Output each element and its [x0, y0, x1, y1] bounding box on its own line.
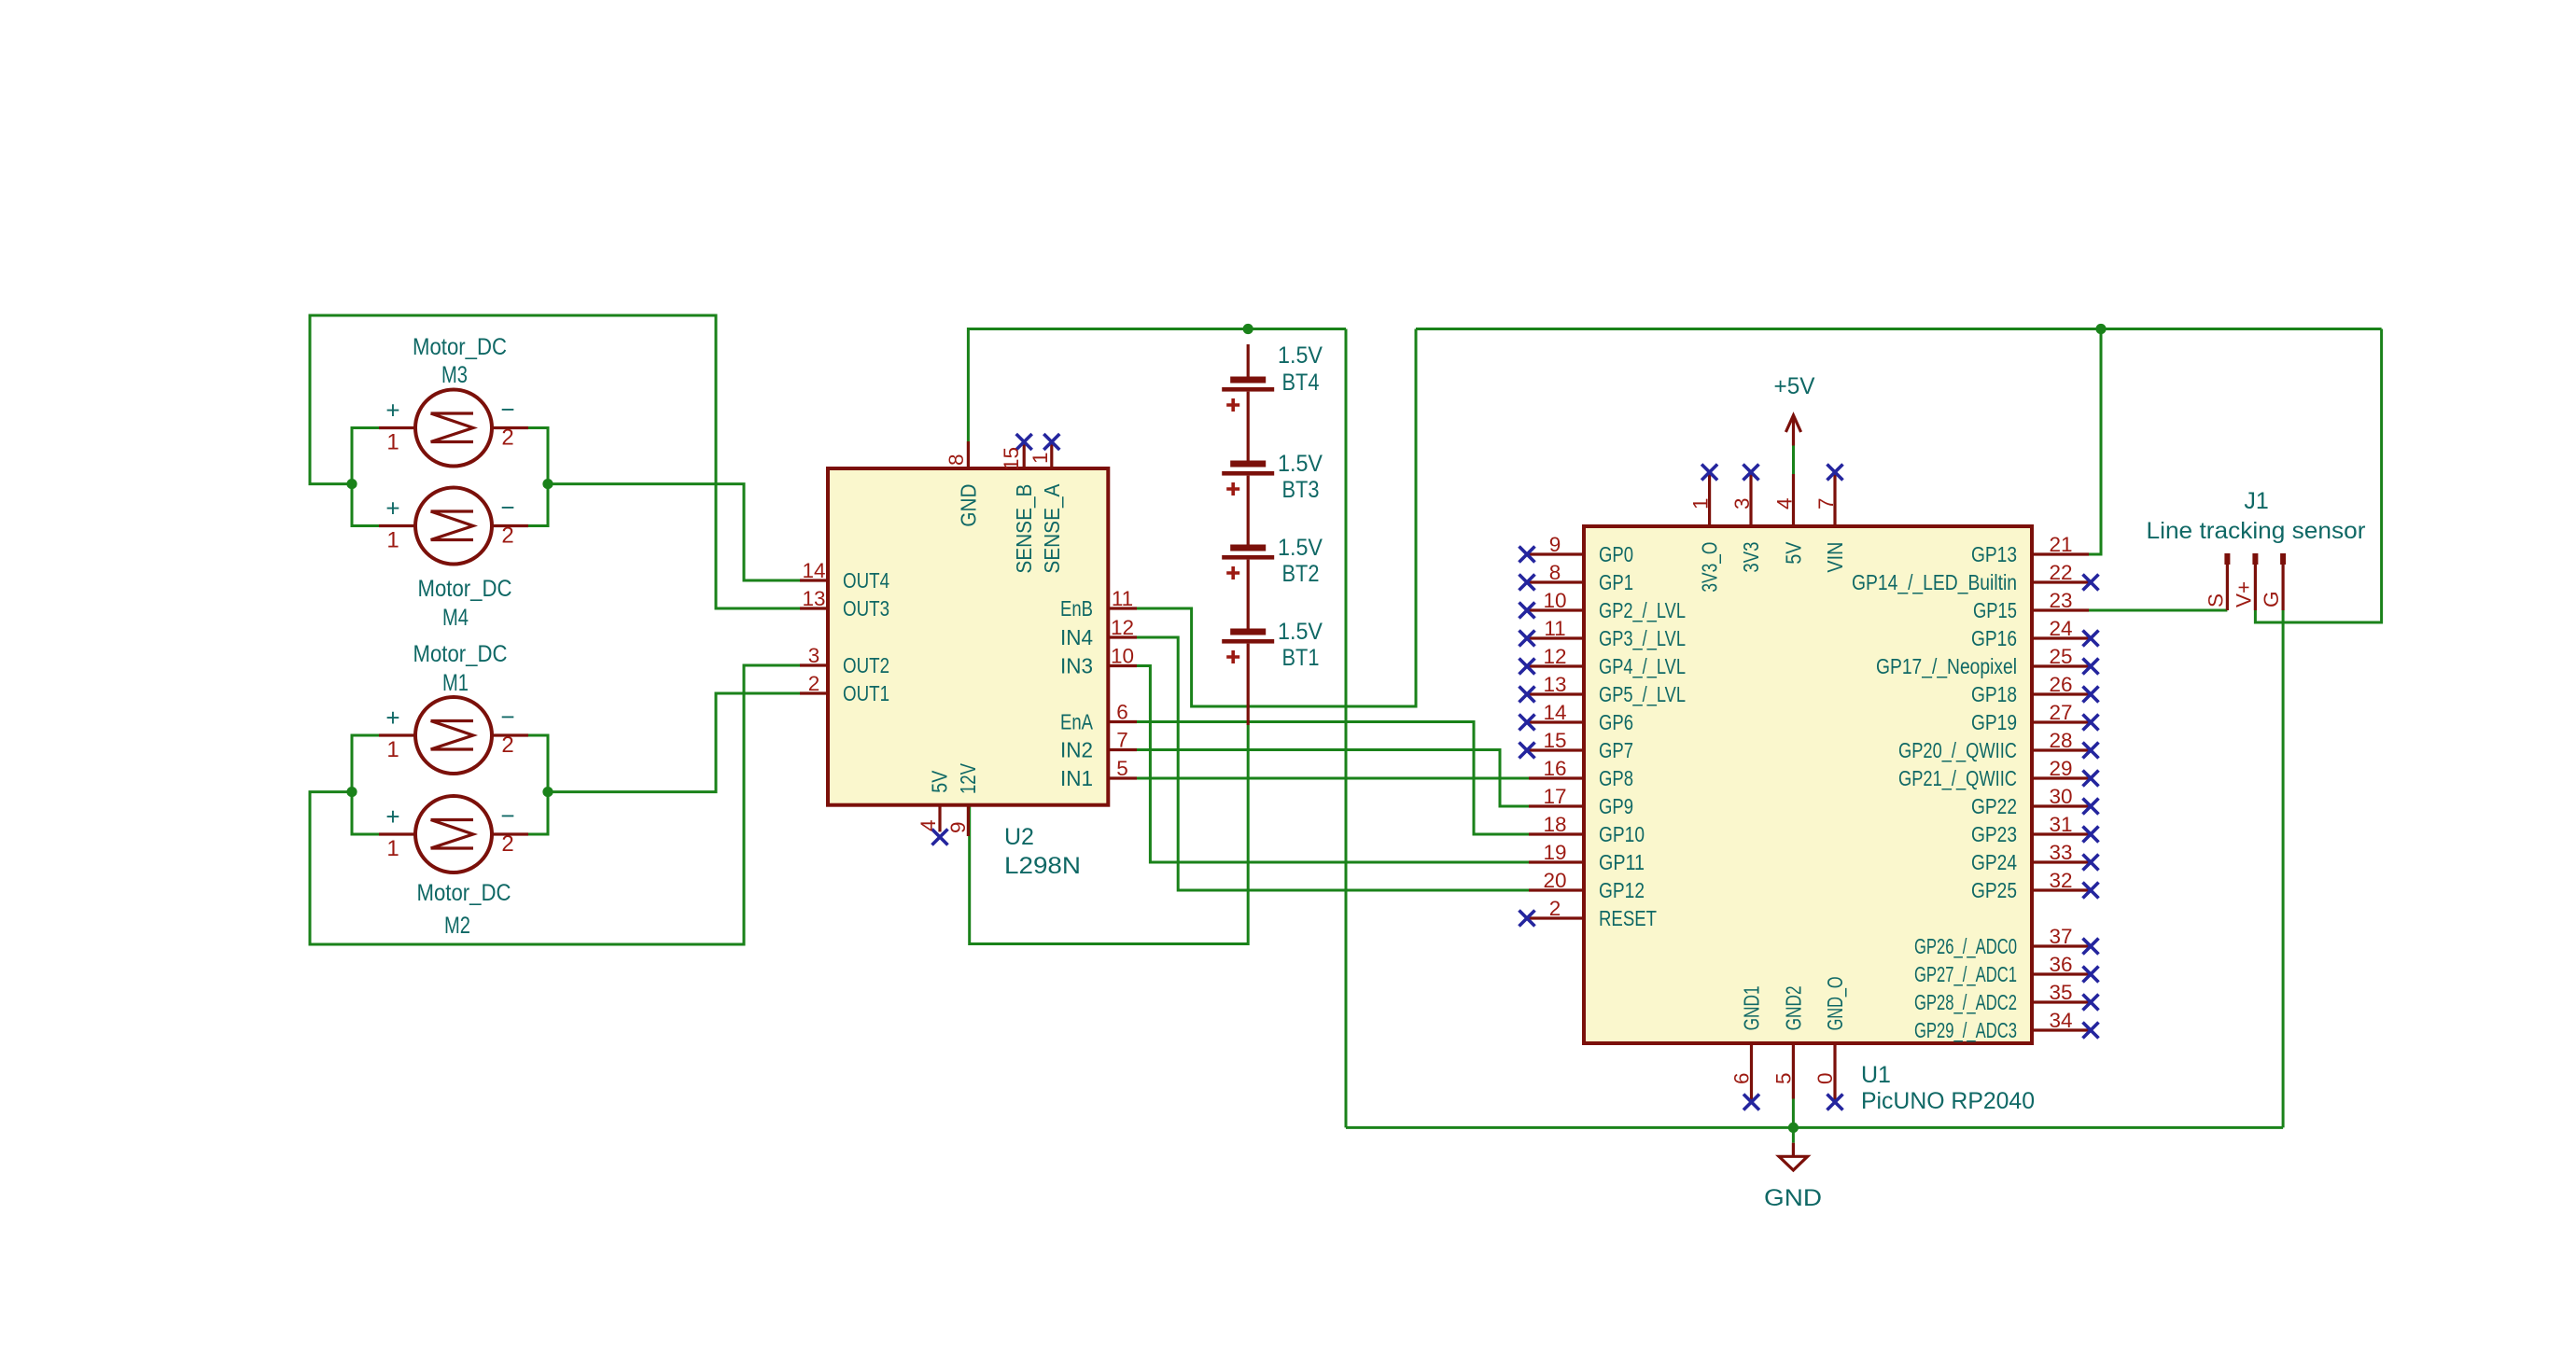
- svg-text:GP17_/_Neopixel: GP17_/_Neopixel: [1876, 654, 2017, 678]
- wire IN3 to GP11: [1137, 666, 1529, 863]
- svg-text:14: 14: [1543, 701, 1566, 724]
- U1 pin 19 GP11: [1529, 841, 1645, 874]
- U1 pin 32 GP25: [1971, 869, 2099, 902]
- wire EnB to +net riser: [1137, 329, 1416, 707]
- svg-text:GP27_/_ADC1: GP27_/_ADC1: [1914, 962, 2017, 986]
- svg-text:5: 5: [1116, 757, 1128, 780]
- svg-text:5V: 5V: [1782, 541, 1806, 565]
- wire net OUT1 (M1/M2 pin2 to U2 pin 2): [548, 693, 801, 792]
- svg-text:23: 23: [2049, 589, 2072, 612]
- svg-text:G: G: [2260, 591, 2283, 607]
- battery BT4 1.5V: [1222, 342, 1323, 412]
- U1 pin 3 3V3: [1730, 465, 1763, 573]
- U1 pin 12 GP4_/_LVL: [1519, 645, 1687, 678]
- U1 pin 25 GP17_/_Neopixel: [1876, 645, 2099, 678]
- wire J1 G to GND rail: [2282, 610, 2285, 1127]
- svg-text:6: 6: [1116, 701, 1128, 724]
- svg-text:15: 15: [1000, 447, 1023, 470]
- svg-text:GP2_/_LVL: GP2_/_LVL: [1599, 598, 1686, 622]
- svg-text:3V3_O: 3V3_O: [1698, 542, 1722, 593]
- junction GND rail / GND2: [1788, 1123, 1799, 1133]
- U1 pin 7 VIN: [1814, 465, 1847, 573]
- U1 pin 13 GP5_/_LVL: [1519, 673, 1687, 706]
- wire M3 pin2 to M4 pin2 vertical: [520, 428, 548, 526]
- svg-text:1: 1: [386, 528, 399, 553]
- svg-text:M4: M4: [442, 605, 469, 631]
- svg-text:GP28_/_ADC2: GP28_/_ADC2: [1914, 990, 2017, 1014]
- U1 pin 30 GP22: [1971, 785, 2099, 818]
- svg-text:L298N: L298N: [1004, 853, 1081, 879]
- svg-text:7: 7: [1814, 497, 1838, 509]
- U2 pin 8 GND: [945, 441, 980, 527]
- svg-text:−: −: [500, 396, 514, 424]
- wire IN2 to GP9: [1137, 750, 1529, 807]
- svg-text:EnB: EnB: [1060, 596, 1093, 621]
- svg-text:M2: M2: [444, 913, 470, 939]
- svg-text:BT1: BT1: [1282, 645, 1320, 671]
- wire M3 pin1 to M4 pin1 vertical: [352, 428, 379, 526]
- svg-text:1: 1: [386, 836, 399, 861]
- svg-text:GP29_/_ADC3: GP29_/_ADC3: [1914, 1018, 2017, 1042]
- U1 pin 15 GP7: [1519, 729, 1634, 762]
- U1 pin 36 GP27_/_ADC1: [1914, 953, 2099, 986]
- svg-text:12: 12: [1111, 616, 1134, 639]
- svg-text:GP1: GP1: [1599, 570, 1633, 594]
- svg-text:GP21_/_QWIIC: GP21_/_QWIIC: [1898, 766, 2017, 790]
- U2 pin 9 12V: [946, 762, 980, 836]
- svg-text:13: 13: [1543, 673, 1566, 696]
- svg-text:GND2: GND2: [1781, 985, 1805, 1030]
- svg-text:12: 12: [1543, 645, 1566, 668]
- svg-text:21: 21: [2049, 533, 2072, 556]
- U1 pin 8 GP1: [1519, 561, 1634, 594]
- U2 pin 6 EnA: [1060, 701, 1137, 734]
- svg-text:GP8: GP8: [1599, 766, 1633, 790]
- U1 pin 18 GP10: [1529, 813, 1645, 846]
- U1 pin 11 GP3_/_LVL: [1519, 617, 1687, 650]
- junction M3/M4 pin1: [346, 479, 357, 489]
- svg-text:Motor_DC: Motor_DC: [418, 576, 512, 602]
- U1 pin 6 GND1: [1730, 985, 1764, 1110]
- wire net OUT4 (M3/M4 pin2 to U2 pin 14): [548, 484, 801, 580]
- svg-text:GP6: GP6: [1599, 710, 1633, 734]
- U2 pin 12 IN4: [1060, 616, 1137, 649]
- junction M1/M2 pin2: [542, 787, 553, 797]
- U2 pin 4 5V: [917, 770, 952, 845]
- U1 pin 1 3V3_O: [1689, 465, 1722, 593]
- U1 pin 5 GND2: [1771, 985, 1805, 1098]
- U1 pin 4 5V: [1773, 474, 1806, 565]
- svg-text:8: 8: [945, 454, 968, 466]
- U2 pin 11 EnB: [1060, 587, 1137, 621]
- U2 pin 15 SENSE_B: [1000, 434, 1036, 574]
- svg-text:GP11: GP11: [1599, 850, 1645, 874]
- U1 pin 17 GP9: [1529, 785, 1633, 818]
- svg-text:1.5V: 1.5V: [1278, 451, 1323, 477]
- svg-text:GP26_/_ADC0: GP26_/_ADC0: [1914, 934, 2017, 958]
- svg-text:4: 4: [917, 819, 940, 831]
- svg-text:OUT1: OUT1: [843, 681, 889, 705]
- U2 pin 7 IN2: [1060, 729, 1137, 762]
- svg-text:OUT2: OUT2: [843, 653, 889, 677]
- J1 pin V+: [2232, 553, 2258, 610]
- svg-text:15: 15: [1543, 729, 1566, 752]
- svg-text:1: 1: [1029, 452, 1052, 464]
- U1 pin 22 GP14_/_LED_Builtin: [1852, 561, 2099, 594]
- svg-text:3: 3: [808, 644, 820, 667]
- svg-text:1.5V: 1.5V: [1278, 535, 1323, 561]
- U2 pin 14 OUT4: [800, 559, 889, 593]
- motor M3: [379, 334, 528, 467]
- svg-text:IN3: IN3: [1060, 654, 1093, 678]
- svg-text:GP25: GP25: [1971, 878, 2017, 902]
- svg-text:8: 8: [1549, 561, 1561, 584]
- svg-text:19: 19: [1543, 841, 1566, 864]
- svg-text:PicUNO RP2040: PicUNO RP2040: [1861, 1088, 2035, 1114]
- U1 pin 0 GND_O: [1813, 976, 1847, 1110]
- svg-text:29: 29: [2049, 757, 2072, 780]
- svg-text:GND: GND: [1764, 1185, 1822, 1211]
- svg-text:GP5_/_LVL: GP5_/_LVL: [1599, 682, 1686, 706]
- svg-text:+: +: [385, 803, 399, 831]
- svg-text:10: 10: [1543, 589, 1566, 612]
- svg-text:VIN: VIN: [1823, 542, 1847, 573]
- svg-text:Motor_DC: Motor_DC: [417, 880, 511, 906]
- U1 pin 14 GP6: [1519, 701, 1634, 734]
- svg-text:Line tracking sensor: Line tracking sensor: [2147, 518, 2366, 544]
- svg-text:13: 13: [802, 587, 825, 610]
- svg-text:24: 24: [2049, 617, 2072, 640]
- svg-text:11: 11: [1112, 587, 1133, 610]
- svg-text:28: 28: [2049, 729, 2072, 752]
- IC U2 L298N body: [828, 468, 1108, 805]
- svg-text:−: −: [500, 494, 514, 522]
- svg-text:5V: 5V: [928, 770, 952, 793]
- svg-text:V+: V+: [2232, 581, 2255, 607]
- svg-text:GP16: GP16: [1971, 626, 2017, 650]
- svg-text:−: −: [500, 703, 514, 731]
- svg-text:1: 1: [386, 430, 399, 455]
- junction M3/M4 pin2: [542, 479, 553, 489]
- svg-text:1: 1: [1689, 497, 1713, 509]
- wire +net drop to J1 V+: [2255, 329, 2381, 623]
- U1 pin 26 GP18: [1971, 673, 2099, 706]
- wire IN4 to GP12: [1137, 637, 1529, 890]
- wire M1 pin1 to M2 pin1 vertical: [352, 735, 379, 834]
- svg-text:GP18: GP18: [1971, 682, 2017, 706]
- svg-text:GP22: GP22: [1971, 794, 2017, 818]
- wire M1 pin2 to M2 pin2 vertical: [520, 735, 548, 834]
- wire battery negative down to GND rail: [1345, 329, 1348, 1128]
- wire IN1 to GP8: [1137, 777, 1529, 780]
- svg-text:3: 3: [1730, 497, 1754, 509]
- U1 pin 21 GP13: [1971, 533, 2089, 566]
- wire U2 GND pin 8 to battery negative: [968, 329, 1346, 442]
- ground GND symbol: [1764, 1143, 1822, 1211]
- svg-text:M1: M1: [442, 670, 469, 696]
- svg-text:35: 35: [2049, 981, 2072, 1004]
- U1 reference and value labels: [1861, 1062, 2035, 1114]
- U1 pin 37 GP26_/_ADC0: [1914, 925, 2099, 958]
- U1 pin 10 GP2_/_LVL: [1519, 589, 1687, 622]
- motor M1: [379, 641, 528, 774]
- svg-text:GP12: GP12: [1599, 878, 1645, 902]
- svg-text:25: 25: [2049, 645, 2072, 668]
- U1 pin 20 GP12: [1529, 869, 1645, 902]
- J1 pin S: [2204, 553, 2230, 610]
- svg-text:SENSE_A: SENSE_A: [1040, 483, 1064, 574]
- svg-text:GND1: GND1: [1740, 985, 1764, 1030]
- U1 pin 33 GP24: [1971, 841, 2099, 874]
- svg-text:GP23: GP23: [1971, 822, 2017, 846]
- svg-text:9: 9: [1549, 533, 1561, 556]
- U1 pin 16 GP8: [1529, 757, 1633, 790]
- U2 pin 10 IN3: [1060, 645, 1137, 678]
- svg-text:GP9: GP9: [1599, 794, 1633, 818]
- svg-text:+: +: [385, 495, 399, 523]
- wire U1 GND2 to GND rail: [1792, 1099, 1795, 1143]
- wire +net drop to GP13 pin 21: [2089, 329, 2101, 555]
- svg-text:1: 1: [386, 737, 399, 762]
- svg-text:26: 26: [2049, 673, 2072, 696]
- svg-text:34: 34: [2049, 1009, 2072, 1032]
- U1 pin 27 GP19: [1971, 701, 2099, 734]
- svg-text:GP4_/_LVL: GP4_/_LVL: [1599, 654, 1686, 678]
- svg-text:36: 36: [2049, 953, 2072, 976]
- svg-text:18: 18: [1543, 813, 1566, 836]
- svg-text:J1: J1: [2244, 488, 2268, 514]
- U2 pin 5 IN1: [1060, 757, 1137, 790]
- svg-text:7: 7: [1116, 729, 1128, 752]
- svg-text:IN2: IN2: [1060, 738, 1093, 762]
- svg-text:OUT3: OUT3: [843, 596, 889, 621]
- svg-text:17: 17: [1543, 785, 1566, 808]
- svg-text:10: 10: [1111, 645, 1134, 668]
- svg-text:2: 2: [501, 523, 513, 549]
- IC U1 PicUNO RP2040 body: [1584, 526, 2032, 1043]
- svg-text:14: 14: [802, 559, 825, 582]
- svg-text:IN4: IN4: [1060, 625, 1093, 649]
- svg-text:GP10: GP10: [1599, 822, 1645, 846]
- wire net OUT2 (M1/M2 pin1 loop to U2 pin 3): [310, 665, 801, 944]
- svg-text:S: S: [2204, 593, 2227, 607]
- svg-text:1.5V: 1.5V: [1278, 619, 1323, 645]
- svg-text:GP19: GP19: [1971, 710, 2017, 734]
- U1 pin 28 GP20_/_QWIIC: [1898, 729, 2099, 762]
- svg-text:SENSE_B: SENSE_B: [1012, 484, 1036, 574]
- svg-text:GP15: GP15: [1973, 598, 2017, 622]
- wire EnA to GP10: [1137, 722, 1529, 835]
- svg-text:2: 2: [501, 426, 513, 451]
- motor M2: [379, 796, 528, 939]
- J1 pin G: [2260, 553, 2286, 610]
- svg-text:BT4: BT4: [1282, 370, 1320, 396]
- svg-text:+5V: +5V: [1774, 373, 1815, 399]
- U1 pin 23 GP15: [1973, 589, 2089, 622]
- wire GND rail: [1346, 1126, 2283, 1129]
- U2 pin 1 SENSE_A: [1029, 434, 1064, 574]
- svg-text:30: 30: [2049, 785, 2072, 808]
- svg-text:OUT4: OUT4: [843, 568, 889, 593]
- svg-text:4: 4: [1773, 497, 1797, 509]
- svg-text:37: 37: [2049, 925, 2072, 948]
- svg-text:EnA: EnA: [1060, 710, 1094, 734]
- svg-text:0: 0: [1813, 1072, 1837, 1084]
- wire +5V symbol to U1 5V pin 4: [1792, 446, 1795, 475]
- svg-text:1.5V: 1.5V: [1278, 342, 1323, 369]
- junction M1/M2 pin1: [346, 787, 357, 797]
- svg-text:6: 6: [1730, 1072, 1754, 1084]
- svg-text:BT3: BT3: [1282, 477, 1320, 503]
- svg-text:20: 20: [1543, 869, 1566, 892]
- svg-text:GND_O: GND_O: [1823, 976, 1847, 1030]
- power symbol +5V: [1774, 373, 1815, 446]
- svg-text:GND: GND: [956, 484, 980, 527]
- svg-text:U2: U2: [1004, 824, 1034, 850]
- svg-text:M3: M3: [441, 362, 468, 388]
- U1 pin 31 GP23: [1971, 813, 2099, 846]
- svg-text:Motor_DC: Motor_DC: [413, 641, 508, 667]
- U1 pin 35 GP28_/_ADC2: [1914, 981, 2099, 1014]
- svg-text:16: 16: [1543, 757, 1566, 780]
- U2 pin 13 OUT3: [800, 587, 889, 621]
- svg-text:GP13: GP13: [1971, 542, 2017, 566]
- svg-text:Motor_DC: Motor_DC: [413, 334, 507, 360]
- U1 pin 2 RESET: [1519, 897, 1658, 930]
- battery BT1 1.5V: [1222, 619, 1323, 671]
- U1 pin 34 GP29_/_ADC3: [1914, 1009, 2099, 1042]
- battery BT2 1.5V: [1222, 535, 1323, 587]
- motor M4: [379, 488, 528, 632]
- svg-text:2: 2: [501, 733, 513, 758]
- svg-text:BT2: BT2: [1282, 561, 1320, 587]
- svg-text:−: −: [500, 802, 514, 830]
- svg-text:11: 11: [1544, 617, 1565, 640]
- svg-text:GP14_/_LED_Builtin: GP14_/_LED_Builtin: [1852, 570, 2017, 594]
- svg-text:2: 2: [1549, 897, 1561, 920]
- svg-text:22: 22: [2049, 561, 2072, 584]
- svg-text:GP7: GP7: [1599, 738, 1633, 762]
- wire GP15 to J1 S: [2089, 609, 2227, 612]
- junction +net / GP13: [2095, 324, 2106, 334]
- svg-text:3V3: 3V3: [1739, 542, 1763, 573]
- svg-text:12V: 12V: [956, 762, 980, 794]
- wire net OUT3 (M3/M4 pin1 loop to U2 pin 13): [310, 315, 801, 608]
- wire +net top horizontal: [1416, 328, 2382, 330]
- U1 pin 29 GP21_/_QWIIC: [1898, 757, 2099, 790]
- U1 pin 24 GP16: [1971, 617, 2099, 650]
- svg-text:33: 33: [2049, 841, 2072, 864]
- svg-text:32: 32: [2049, 869, 2072, 892]
- svg-text:IN1: IN1: [1060, 766, 1093, 790]
- U2 reference and value labels: [1004, 824, 1081, 879]
- svg-text:GP24: GP24: [1971, 850, 2017, 874]
- svg-text:9: 9: [946, 821, 970, 833]
- U2 pin 3 OUT2: [800, 644, 889, 677]
- U2 pin 2 OUT1: [800, 672, 889, 705]
- battery BT3 1.5V: [1222, 451, 1323, 503]
- battery stack lead: [1247, 344, 1250, 377]
- svg-text:U1: U1: [1861, 1062, 1891, 1088]
- svg-text:+: +: [385, 397, 399, 425]
- junction battery top / GND net: [1243, 324, 1253, 334]
- svg-text:GP20_/_QWIIC: GP20_/_QWIIC: [1898, 738, 2017, 762]
- wire battery positive to U2 12V pin 9: [970, 725, 1249, 944]
- svg-text:GP0: GP0: [1599, 542, 1633, 566]
- svg-text:RESET: RESET: [1599, 906, 1657, 930]
- svg-text:27: 27: [2049, 701, 2072, 724]
- connector J1 Line tracking sensor: [2147, 488, 2366, 544]
- U1 pin 9 GP0: [1519, 533, 1634, 566]
- svg-text:2: 2: [808, 672, 820, 695]
- svg-text:5: 5: [1771, 1072, 1795, 1084]
- svg-text:GP3_/_LVL: GP3_/_LVL: [1599, 626, 1686, 650]
- svg-text:+: +: [385, 704, 399, 732]
- svg-text:31: 31: [2049, 813, 2072, 836]
- svg-text:2: 2: [501, 831, 513, 857]
